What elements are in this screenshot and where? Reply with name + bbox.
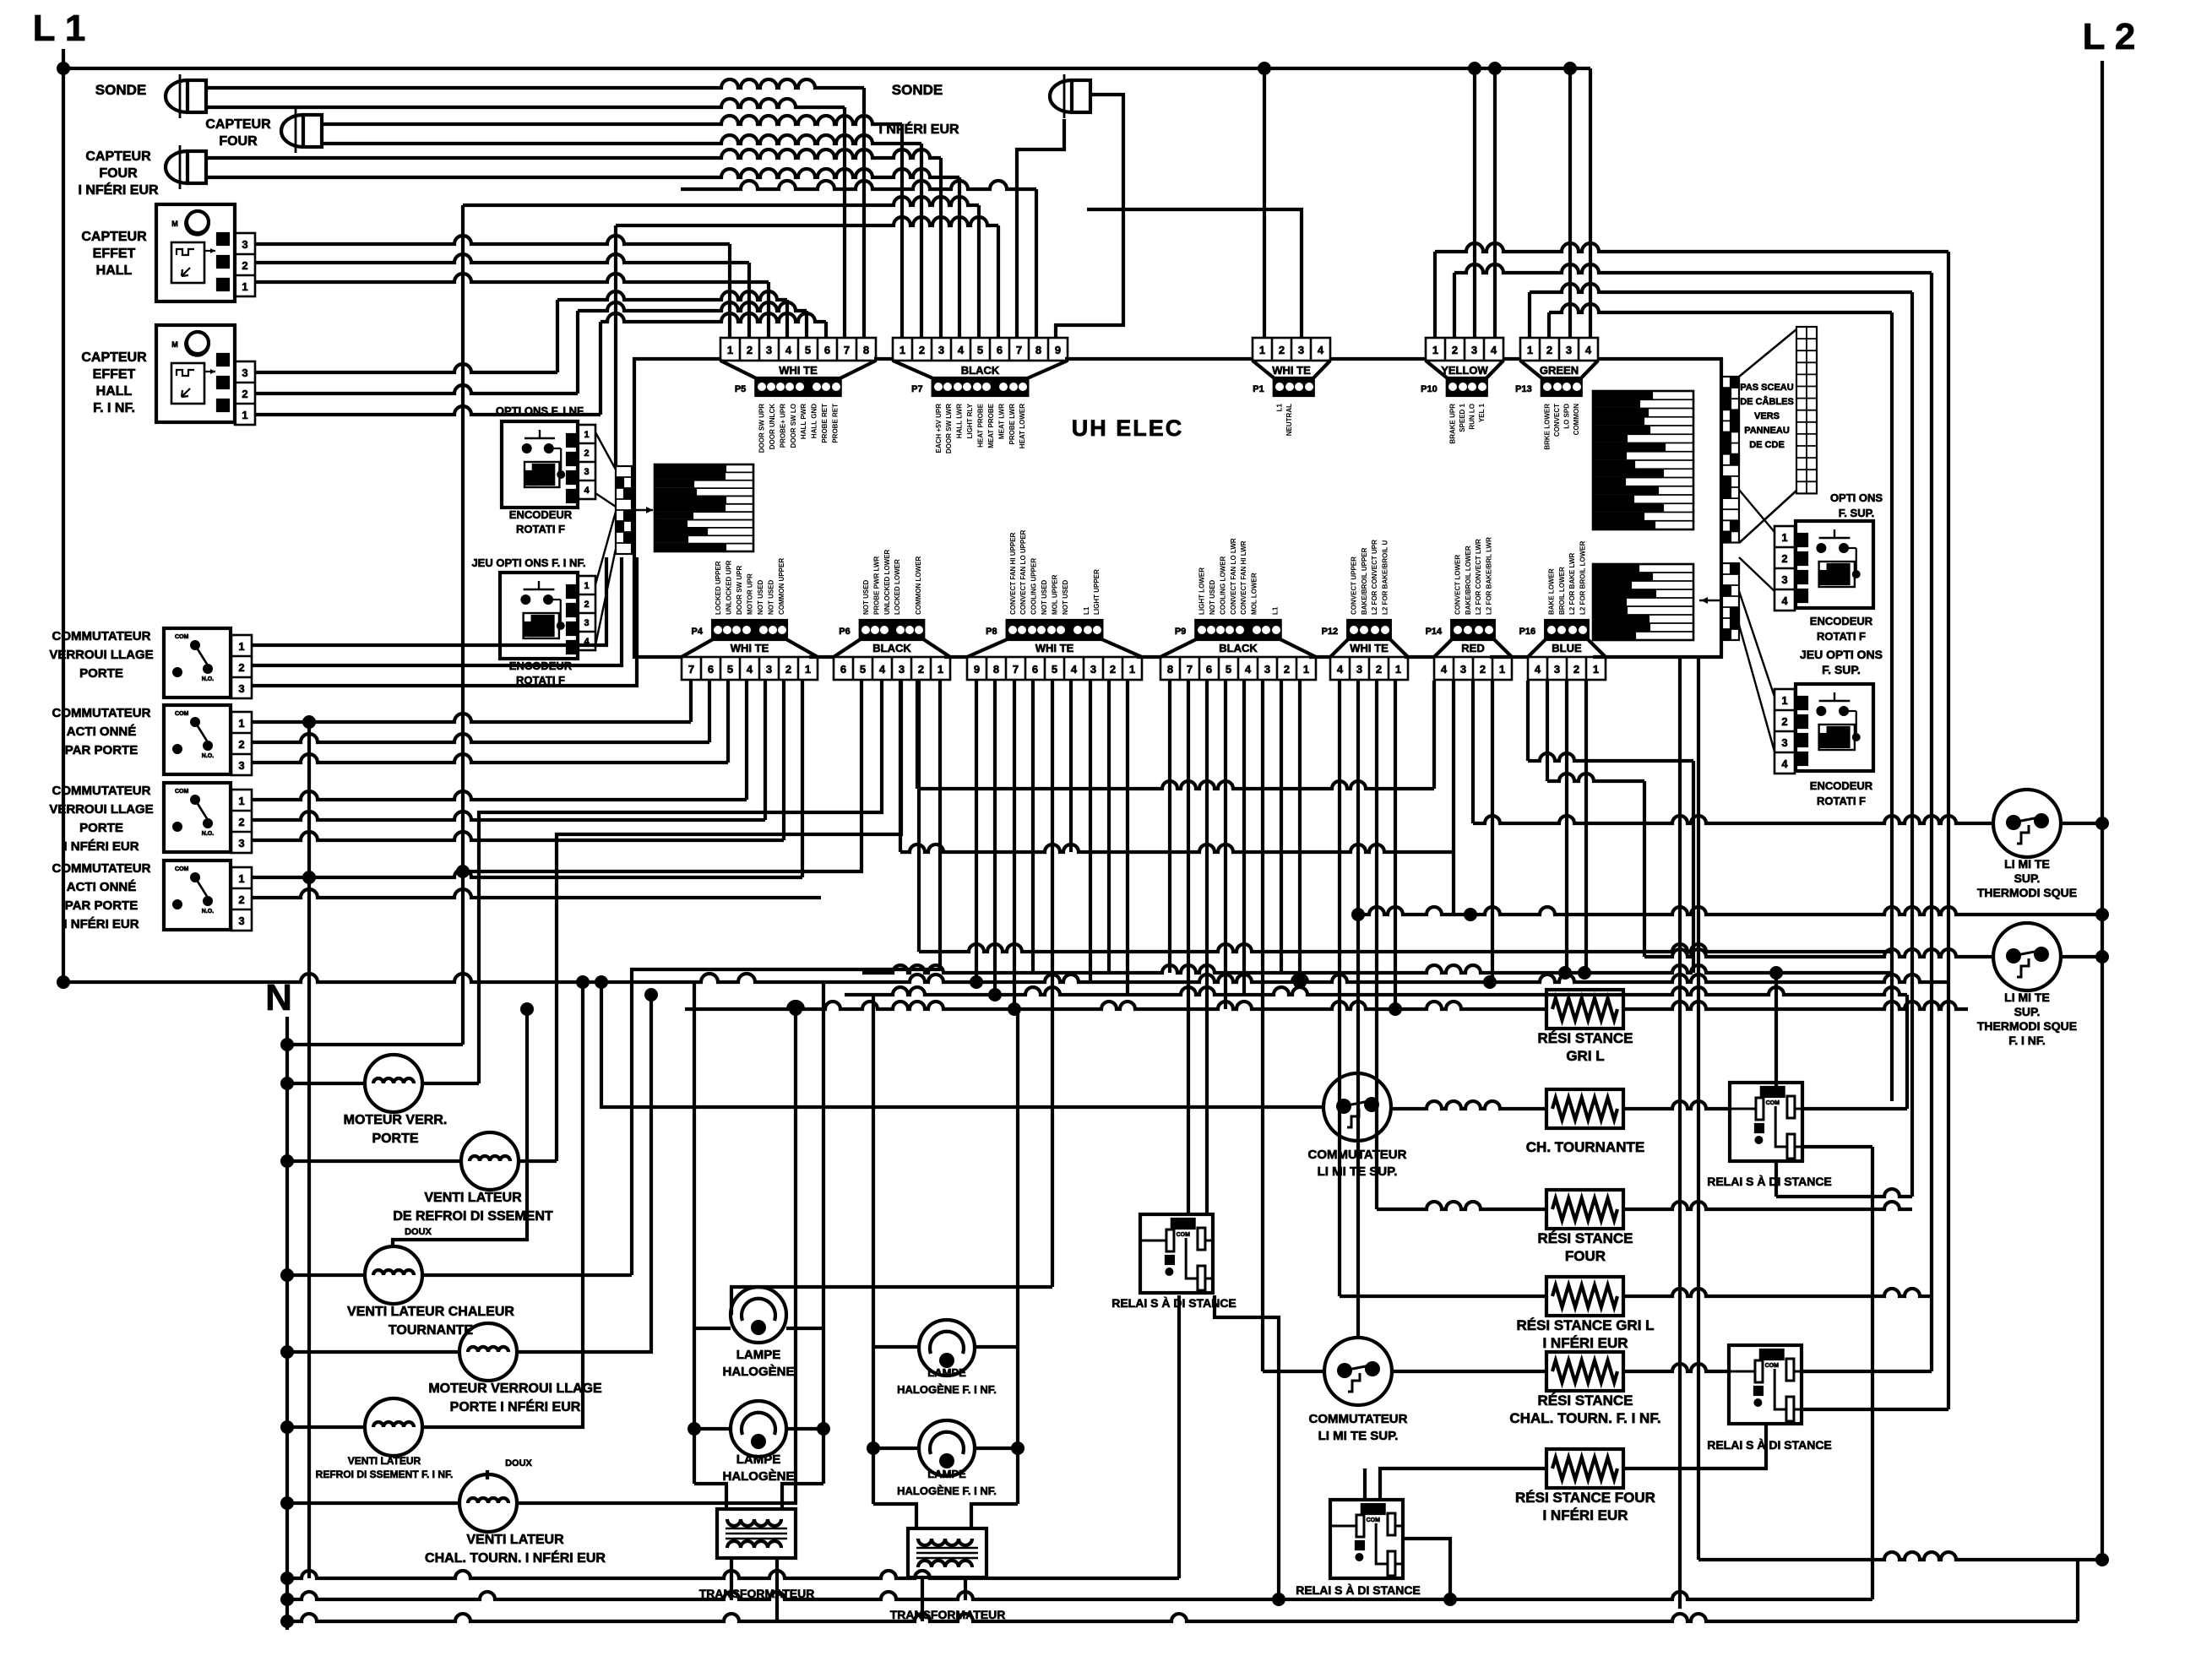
svg-text:5: 5 <box>1226 663 1231 676</box>
wire bottom-left rail <box>59 974 862 982</box>
svg-text:MOL LOWER: MOL LOWER <box>1251 573 1258 615</box>
wire row y1127 <box>919 944 1890 952</box>
svg-text:LAMPE: LAMPE <box>927 1468 966 1480</box>
svg-text:3: 3 <box>1356 663 1362 676</box>
svg-text:3: 3 <box>938 344 944 356</box>
wire P8 pin drops <box>975 681 978 982</box>
lamp LAMPE HALOGENE 2 <box>731 1401 786 1457</box>
svg-text:4: 4 <box>1337 663 1344 676</box>
svg-text:I NFÉRI EUR: I NFÉRI EUR <box>63 839 139 854</box>
wire S3 pin1 row <box>252 791 747 800</box>
svg-text:JEU OPTI ONS: JEU OPTI ONS <box>1800 648 1883 661</box>
wire thermo2 to L2 <box>2061 955 2102 958</box>
wire L1 rail <box>62 49 65 982</box>
resistor RESISTANCE FOUR INFERIEUR <box>1546 1449 1623 1488</box>
svg-text:COM: COM <box>1766 1100 1780 1106</box>
wire row to P1 pin3 <box>1087 209 1302 338</box>
svg-text:COMMON UPPER: COMMON UPPER <box>778 558 785 615</box>
svg-text:CHAL. TOURN. I NFÉRI EUR: CHAL. TOURN. I NFÉRI EUR <box>425 1550 606 1566</box>
connector encoder U5 pins <box>1774 526 1795 611</box>
svg-text:8: 8 <box>993 663 999 676</box>
svg-text:5: 5 <box>860 663 866 676</box>
svg-text:RÉSI STANCE GRI L: RÉSI STANCE GRI L <box>1516 1317 1654 1333</box>
connector P16 BLUE pin row <box>1528 657 1606 680</box>
svg-text:RÉSI STANCE FOUR: RÉSI STANCE FOUR <box>1515 1490 1655 1506</box>
svg-text:PROBE PWR LWR: PROBE PWR LWR <box>872 556 880 615</box>
svg-text:CONVECT LOWER: CONVECT LOWER <box>1454 555 1461 615</box>
resistor RESISTANCE GRIL INFERIEUR <box>1546 1277 1623 1316</box>
lamp LAMPE HALOGENE F INF 1 <box>919 1320 975 1376</box>
thermostat LIMITE SUP. THERMODISQUE F. INF. <box>1993 923 2061 991</box>
svg-text:4: 4 <box>747 663 753 676</box>
wire N rail <box>285 1017 289 1630</box>
svg-text:MOL UPPER: MOL UPPER <box>1052 574 1059 615</box>
node N motor MOTEUR VERROUI LLAGE <box>280 1345 294 1359</box>
wire aux row to P7 pin5 <box>463 197 979 205</box>
svg-text:2: 2 <box>584 448 589 459</box>
wire long row y1195 <box>685 1002 1546 1009</box>
wire aux row to P7 pin6 <box>616 217 998 225</box>
wire row1009 drops <box>899 681 902 852</box>
wire lamp group1 feeds <box>693 982 696 1328</box>
wire P12 pin drops <box>1338 681 1341 1296</box>
svg-text:BAKE/BROIL LOWER: BAKE/BROIL LOWER <box>1465 546 1472 615</box>
svg-text:L2 FOR BAKE LWR: L2 FOR BAKE LWR <box>1568 552 1576 615</box>
wire S4 pin1 row <box>252 869 802 877</box>
svg-text:2: 2 <box>919 344 925 356</box>
svg-text:BAKE LOWER: BAKE LOWER <box>1547 568 1555 615</box>
svg-text:3: 3 <box>242 366 247 379</box>
svg-text:2: 2 <box>242 259 247 272</box>
wire capteur four lead 2 <box>322 135 921 144</box>
svg-text:2: 2 <box>1573 663 1579 676</box>
svg-text:PROBE+ UPR: PROBE+ UPR <box>779 404 786 448</box>
svg-text:CONVECT UPPER: CONVECT UPPER <box>1350 556 1357 615</box>
svg-text:8: 8 <box>863 344 869 356</box>
svg-text:3: 3 <box>1554 663 1560 676</box>
svg-text:DOOR SW LO: DOOR SW LO <box>790 404 797 448</box>
svg-text:L 2: L 2 <box>2083 16 2136 57</box>
wire res four inf row left <box>1380 1468 1546 1500</box>
svg-text:P9: P9 <box>1175 627 1186 637</box>
svg-text:CONVECT FAN HI UPPER: CONVECT FAN HI UPPER <box>1009 532 1017 615</box>
svg-text:LAMPE: LAMPE <box>736 1348 781 1362</box>
connector S2 pins <box>231 712 252 775</box>
svg-text:4: 4 <box>785 344 792 356</box>
wire relay B row out <box>1776 1189 1912 1197</box>
svg-text:L2 FOR BROIL LOWER: L2 FOR BROIL LOWER <box>1579 540 1587 615</box>
node lamp1 sides <box>688 1422 701 1436</box>
svg-text:I NFÉRI EUR: I NFÉRI EUR <box>878 121 959 137</box>
svg-text:2: 2 <box>1546 344 1552 356</box>
svg-text:VENTI LATEUR: VENTI LATEUR <box>348 1455 421 1467</box>
connector P7 strip <box>933 378 1028 395</box>
wire CH TOURNANTE row <box>1391 1101 1546 1109</box>
svg-text:EFFET: EFFET <box>93 367 136 382</box>
svg-text:4: 4 <box>1245 663 1252 676</box>
svg-text:COMMUTATEUR: COMMUTATEUR <box>52 861 151 876</box>
wire row y1009 <box>900 844 1454 852</box>
svg-text:1: 1 <box>1259 344 1265 356</box>
wire sonde lead 2 drop <box>843 107 846 338</box>
node row1195 junction <box>1008 1002 1021 1016</box>
svg-text:OPTI ONS F. I NF.: OPTI ONS F. I NF. <box>496 404 585 417</box>
wire nested route row 2 <box>1453 273 1456 338</box>
wire stub vertical x2217 <box>1871 1147 1874 1599</box>
connector P9 strip <box>1196 621 1280 639</box>
svg-text:3: 3 <box>242 238 247 251</box>
wire relay E top feed <box>1363 1468 1367 1500</box>
svg-text:I NFÉRI EUR: I NFÉRI EUR <box>63 917 139 931</box>
svg-text:VERS: VERS <box>1754 411 1780 421</box>
svg-text:EFFET: EFFET <box>93 247 136 261</box>
wire aux drop P7 pin6 <box>997 225 1000 338</box>
svg-text:4: 4 <box>1491 344 1497 356</box>
svg-text:M: M <box>171 220 178 228</box>
svg-text:CAPTEUR: CAPTEUR <box>81 230 147 244</box>
svg-text:3: 3 <box>766 344 772 356</box>
probe CAPTEUR FOUR symbol <box>295 109 297 153</box>
sensor CAPTEUR EFFET HALL U1 <box>156 204 235 301</box>
connector P14 strip <box>1452 621 1494 639</box>
svg-text:THERMODI SQUE: THERMODI SQUE <box>1977 886 2077 899</box>
svg-text:BAKE/BROIL UPPER: BAKE/BROIL UPPER <box>1361 547 1368 615</box>
svg-text:ROTATI F: ROTATI F <box>516 674 565 687</box>
relay RELAIS A DISTANCE E <box>1330 1500 1403 1578</box>
svg-text:VERROUI LLAGE: VERROUI LLAGE <box>49 648 153 662</box>
connector S1 pins <box>231 635 252 698</box>
wire relay B right row <box>1802 1107 1907 1110</box>
svg-text:BROIL LOWER: BROIL LOWER <box>1558 567 1566 615</box>
wire DOUX tap 1 <box>393 1009 527 1248</box>
svg-text:CONVECT FAN LO LWR: CONVECT FAN LO LWR <box>1230 538 1237 615</box>
switch S3 box <box>164 783 231 852</box>
svg-text:3: 3 <box>1264 663 1270 676</box>
svg-text:HALL LWR: HALL LWR <box>956 404 964 438</box>
svg-text:L2 FOR BAKE/BROIL U: L2 FOR BAKE/BROIL U <box>1382 540 1389 615</box>
svg-text:P16: P16 <box>1519 627 1536 637</box>
svg-text:COMMUTATEUR: COMMUTATEUR <box>1308 1148 1407 1162</box>
svg-text:SUP.: SUP. <box>2014 1005 2041 1018</box>
wire hall2 pin1 route <box>255 406 601 415</box>
wire S3 pin2 row <box>252 812 765 820</box>
connector P16 trapezoid <box>1528 639 1546 657</box>
node L2 bottom junction <box>2095 1553 2109 1566</box>
wire box-right drop x1989 <box>1678 657 1682 1609</box>
wire nested route drop 1 <box>1947 252 1950 1409</box>
node L1-bottom <box>57 975 70 989</box>
svg-text:COM: COM <box>1367 1517 1381 1523</box>
svg-text:3: 3 <box>1298 344 1304 356</box>
svg-text:COM: COM <box>1177 1232 1191 1238</box>
svg-text:VENTI LATEUR: VENTI LATEUR <box>466 1533 564 1547</box>
svg-text:SPEED 1: SPEED 1 <box>1459 403 1466 432</box>
svg-text:DOUX: DOUX <box>405 1227 432 1237</box>
connector P12 strip <box>1348 621 1390 639</box>
wire nested route row 1 <box>1433 252 1437 338</box>
motor VENTI LATEUR <box>459 1474 517 1532</box>
node S2 pin1 junction <box>302 715 316 729</box>
wire relay D right <box>1215 1295 1279 1599</box>
wire sonde inf lead 2 <box>1017 119 1064 338</box>
connector P9 trapezoid <box>1160 639 1196 657</box>
svg-text:SONDE: SONDE <box>892 82 943 98</box>
wire N to motor MOTEUR VERROUI LLAGE <box>287 1350 459 1354</box>
svg-text:ACTI ONNÉ: ACTI ONNÉ <box>67 725 137 739</box>
wire relay E right <box>1405 1539 1450 1599</box>
svg-text:2: 2 <box>584 600 589 610</box>
wire res gril inf right <box>1623 1289 1932 1296</box>
wire S1 pin3 row <box>252 557 637 686</box>
connector P4 trapezoid <box>682 639 713 657</box>
svg-text:JEU OPTI ONS F. I NF.: JEU OPTI ONS F. I NF. <box>471 556 585 569</box>
relay RELAIS A DISTANCE C <box>1729 1345 1802 1424</box>
connector P13 trapezoid <box>1520 361 1542 378</box>
svg-text:PROBE LWR: PROBE LWR <box>1008 404 1016 445</box>
connector P5 WHI TE pin row <box>720 338 876 361</box>
wire capteur four inf lead 2 <box>206 169 959 177</box>
svg-text:L1: L1 <box>1276 403 1284 411</box>
svg-text:VERROUI LLAGE: VERROUI LLAGE <box>49 802 153 817</box>
svg-text:F. SUP.: F. SUP. <box>1839 507 1874 519</box>
svg-text:1: 1 <box>1781 694 1787 707</box>
wire left bus vertical x545 <box>461 205 465 1045</box>
svg-text:3: 3 <box>238 759 244 772</box>
svg-text:HALL PWR: HALL PWR <box>800 404 807 439</box>
svg-text:COOLING UPPER: COOLING UPPER <box>1030 558 1038 615</box>
node motor5 row1163 <box>576 975 590 989</box>
connector P9 BLACK pin row <box>1160 657 1316 680</box>
node N motor VENTI LATEUR <box>280 1496 294 1510</box>
svg-text:MEAT PROBE: MEAT PROBE <box>987 403 995 448</box>
svg-text:1: 1 <box>238 795 244 807</box>
svg-text:F. I NF.: F. I NF. <box>2008 1034 2046 1047</box>
svg-text:CHAL. TOURN. F. I NF.: CHAL. TOURN. F. I NF. <box>1509 1410 1660 1426</box>
connector P7 trapezoid <box>893 361 933 378</box>
node P6 pin5 x548 <box>456 865 470 878</box>
wire left bus vertical x366 <box>307 722 311 1578</box>
motor MOTEUR VERROUI LLAGE <box>459 1323 517 1381</box>
wire relay B bottom exit <box>1802 1145 1872 1148</box>
svg-text:6: 6 <box>1032 663 1038 676</box>
switch S1 box <box>164 628 231 698</box>
svg-text:PROBE RET: PROBE RET <box>821 404 829 443</box>
svg-text:P12: P12 <box>1322 627 1339 637</box>
svg-text:2: 2 <box>747 344 753 356</box>
svg-text:NOT USED: NOT USED <box>767 579 774 615</box>
svg-text:4: 4 <box>879 663 886 676</box>
svg-text:ENCODEUR: ENCODEUR <box>1810 615 1873 627</box>
svg-text:HALOGÈNE: HALOGÈNE <box>722 1365 794 1379</box>
svg-text:CONVECT FAN LO UPPER: CONVECT FAN LO UPPER <box>1019 529 1027 615</box>
svg-text:WHI TE: WHI TE <box>779 364 818 377</box>
wire box-right drop x2011 <box>1697 657 1700 1560</box>
wire P14 pin4 drop <box>1491 681 1494 982</box>
probe SONDE symbol <box>179 74 182 118</box>
thermostat LIMITE SUP. THERMODISQUE <box>1993 790 2061 857</box>
svg-text:PORTE: PORTE <box>79 821 123 835</box>
wire row y925 <box>1547 774 1644 781</box>
svg-text:N.O.: N.O. <box>202 753 214 759</box>
wire nested route drop 3 <box>1910 292 1914 1197</box>
svg-text:2: 2 <box>1480 663 1486 676</box>
svg-text:PORTE: PORTE <box>79 666 123 681</box>
svg-text:HALOGÈNE: HALOGÈNE <box>722 1469 794 1484</box>
wire row y901 <box>1528 753 1693 761</box>
svg-text:UNLOCKED UPR: UNLOCKED UPR <box>726 560 733 615</box>
svg-text:YEL 1: YEL 1 <box>1478 403 1486 422</box>
wire encoder U3 fan <box>595 432 616 470</box>
svg-text:P13: P13 <box>1515 384 1532 394</box>
wire arrow into right strip <box>1699 600 1720 601</box>
wire row y1847 <box>1698 1552 2078 1560</box>
switch COMMUTATEUR LIMITE SUP. 2 <box>1324 1338 1392 1405</box>
connector strip right edge upper <box>1721 377 1739 543</box>
svg-text:F. I NF.: F. I NF. <box>93 401 135 415</box>
wire bottom rail up to L2 <box>2078 1560 2102 1621</box>
svg-text:4: 4 <box>1318 344 1324 356</box>
svg-text:HALL GND: HALL GND <box>811 404 818 438</box>
connector P14 RED pin row <box>1434 657 1512 680</box>
svg-text:2: 2 <box>1284 663 1290 676</box>
svg-text:6: 6 <box>1206 663 1212 676</box>
svg-text:THERMODI SQUE: THERMODI SQUE <box>1977 1019 2077 1033</box>
node thermo2 L2 <box>2095 950 2109 964</box>
motor VENTILATEUR REFROIDISSEMENT F INF <box>365 1398 422 1456</box>
svg-text:DE CDE: DE CDE <box>1749 440 1785 450</box>
connector P8 trapezoid <box>967 639 1008 657</box>
wire nested route drop 4 <box>1890 312 1894 1101</box>
svg-text:7: 7 <box>1016 344 1022 356</box>
svg-text:1: 1 <box>238 717 244 730</box>
svg-text:PAR PORTE: PAR PORTE <box>65 898 138 913</box>
svg-text:1: 1 <box>1303 663 1309 676</box>
svg-text:2: 2 <box>238 661 244 674</box>
wire S2 pin3 row <box>252 754 728 763</box>
svg-text:COM: COM <box>1765 1363 1780 1369</box>
transformer TRANSFORMATEUR 2 <box>908 1528 986 1577</box>
svg-text:P5: P5 <box>735 384 746 394</box>
svg-text:L 1: L 1 <box>33 8 86 49</box>
svg-text:RUN LO: RUN LO <box>1469 404 1476 430</box>
svg-text:1: 1 <box>584 581 589 591</box>
svg-text:P10: P10 <box>1421 384 1438 394</box>
wire motor2 right route <box>519 1159 557 1163</box>
wire capteur four lead 2 drop <box>920 144 923 338</box>
svg-text:P1: P1 <box>1253 384 1264 394</box>
svg-text:5: 5 <box>805 344 811 356</box>
wire capteur four inf lead 1 <box>206 149 941 158</box>
svg-text:1: 1 <box>238 872 244 885</box>
svg-text:COMMON: COMMON <box>1573 404 1580 436</box>
node N motor VENTI LATEUR <box>280 1154 294 1168</box>
svg-text:MEAT LWR: MEAT LWR <box>997 404 1005 439</box>
switch COMMUTATEUR LIMITE SUP. 1 <box>1323 1073 1391 1141</box>
connector P2 P3 strip on box left edge <box>616 466 632 554</box>
wire P14 pin1 drop to row 1083 <box>1452 681 1455 915</box>
svg-text:1: 1 <box>805 663 811 676</box>
table output map upper right <box>1593 391 1693 529</box>
svg-text:N.O.: N.O. <box>202 831 214 837</box>
svg-text:BRAKE UPR: BRAKE UPR <box>1449 404 1457 444</box>
connector P6 BLACK pin row <box>834 657 950 680</box>
wire S1 pin1 row <box>252 557 606 645</box>
wire P6 pin5 drop route <box>463 681 861 871</box>
svg-text:6: 6 <box>708 663 714 676</box>
svg-text:4: 4 <box>1441 663 1448 676</box>
svg-text:BLUE: BLUE <box>1552 642 1582 654</box>
svg-text:NOT USED: NOT USED <box>1041 579 1048 615</box>
svg-text:N.O.: N.O. <box>202 909 214 915</box>
wire P6 pin1 drop route <box>632 681 940 1275</box>
svg-text:6: 6 <box>840 663 846 676</box>
svg-text:COMMON LOWER: COMMON LOWER <box>915 556 922 615</box>
svg-text:5: 5 <box>1052 663 1057 676</box>
svg-text:2: 2 <box>238 738 244 751</box>
svg-text:1: 1 <box>1527 344 1533 356</box>
wire row y1083 <box>1358 907 2102 915</box>
node doux1 row1195 <box>520 1002 534 1016</box>
wire P14 pin2 drop to row 975 <box>1471 681 1475 823</box>
connector P4 strip <box>713 621 786 639</box>
svg-text:6: 6 <box>824 344 830 356</box>
svg-text:PROBE RET: PROBE RET <box>831 404 839 443</box>
table relay map inside box <box>655 464 753 551</box>
wire drop x1947 to thermo2 row <box>1643 781 1646 957</box>
svg-text:1: 1 <box>1395 663 1401 676</box>
svg-text:2: 2 <box>785 663 791 676</box>
svg-text:P4: P4 <box>692 627 704 637</box>
svg-text:SUP.: SUP. <box>2014 871 2041 885</box>
wire sonde lead 2 <box>206 99 845 107</box>
connector P14 trapezoid <box>1434 639 1452 657</box>
connector P8 WHI TE pin row <box>967 657 1142 680</box>
node S4 pin1 junction <box>302 871 316 884</box>
svg-text:ACTI ONNÉ: ACTI ONNÉ <box>67 880 137 894</box>
wire relay B coil feed <box>1774 973 1778 1088</box>
svg-text:COM: COM <box>175 711 189 717</box>
svg-text:4: 4 <box>1071 663 1078 676</box>
svg-text:DOOR SW UPR: DOOR SW UPR <box>736 566 743 615</box>
svg-text:LIGHT UPPER: LIGHT UPPER <box>1093 569 1101 615</box>
connector encoder U3 pins <box>578 425 595 499</box>
wire row 934 up to P14 pin3 <box>1432 681 1436 789</box>
relay RELAIS A DISTANCE D <box>1140 1214 1213 1293</box>
svg-text:2: 2 <box>1279 344 1285 356</box>
table output map lower right <box>1593 564 1693 640</box>
svg-text:P6: P6 <box>839 627 850 637</box>
svg-text:PORTE: PORTE <box>372 1132 418 1146</box>
wire aux row to P7 pin8 <box>681 181 1036 189</box>
svg-text:1: 1 <box>1129 663 1135 676</box>
connector P5 trapezoid <box>720 361 756 378</box>
svg-text:RÉSI STANCE: RÉSI STANCE <box>1537 1392 1633 1409</box>
module UH ELEC outline <box>634 359 720 657</box>
svg-text:1: 1 <box>242 280 247 293</box>
node thermo1 L2 <box>2095 817 2109 830</box>
svg-text:M: M <box>171 340 178 349</box>
svg-text:LI MI TE: LI MI TE <box>2004 857 2050 871</box>
svg-text:EACH +5V UPR: EACH +5V UPR <box>935 404 943 453</box>
svg-text:RÉSI STANCE: RÉSI STANCE <box>1537 1030 1633 1046</box>
wire S2 pin2 row <box>252 734 709 742</box>
wire bottom rail y1920 <box>287 1614 2078 1621</box>
svg-text:1: 1 <box>1593 663 1599 676</box>
svg-text:TRANSFORMATEUR: TRANSFORMATEUR <box>890 1608 1006 1621</box>
wire motor4 right route <box>517 995 651 1352</box>
node lamp2 sides <box>867 1441 880 1455</box>
svg-text:5: 5 <box>977 344 983 356</box>
